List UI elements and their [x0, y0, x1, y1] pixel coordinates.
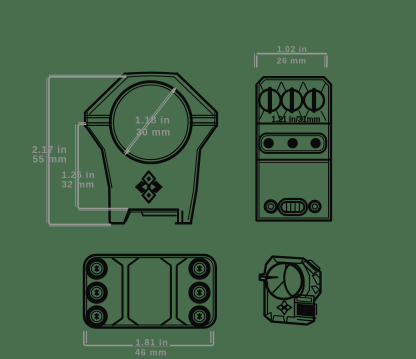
svg-text:1.18 in: 1.18 in	[135, 116, 170, 127]
3d clamp dark block	[298, 305, 315, 317]
screw 2 slot	[290, 87, 294, 113]
svg-text:26 mm: 26 mm	[277, 55, 307, 65]
svg-text:46 mm: 46 mm	[135, 347, 167, 357]
dim 1.02in bracket	[255, 53, 327, 67]
oval knurl ticks	[287, 203, 300, 212]
svg-text:1.21 in/31mm: 1.21 in/31mm	[272, 115, 321, 124]
cap top arc outer	[125, 73, 177, 74]
3d rear boss slots (hatch parallelograms)	[302, 262, 318, 275]
knurl dot 3	[310, 138, 320, 148]
3d bottom feet lines	[273, 316, 295, 323]
knurl band inner	[261, 136, 324, 151]
3d ring split line across	[260, 276, 278, 277]
torx centers	[95, 265, 202, 319]
3d bore ellipse	[282, 263, 306, 299]
star logo: bottom inner filled diamond	[146, 192, 151, 198]
cap top arc inner	[128, 76, 174, 77]
star logo: left chevron lobe	[135, 181, 147, 194]
right foot bottom	[176, 222, 191, 225]
3d mini star	[277, 300, 292, 314]
rail top inner line	[131, 211, 177, 213]
top view outer rounded rect	[84, 255, 216, 328]
body left edge	[86, 127, 110, 222]
star logo: right chevron lobe	[151, 181, 163, 194]
dim 1.18in diagonal diameter line	[125, 89, 176, 155]
saddle bar left	[123, 266, 129, 319]
3d clamp inner slot	[297, 297, 312, 302]
right clamp block verticals	[178, 210, 182, 222]
svg-text:55 mm: 55 mm	[33, 154, 68, 165]
svg-text:32 mm: 32 mm	[62, 180, 95, 191]
mid divider inner	[259, 162, 329, 164]
knurl dot 1	[263, 138, 273, 148]
ring outer circle	[110, 82, 191, 163]
dim text 1.81 in / 46 mm (masked over line)	[133, 338, 170, 347]
saddle bar right	[171, 266, 177, 319]
3d clamp rail lines	[295, 303, 317, 322]
svg-text:1.02 in: 1.02 in	[277, 44, 307, 54]
screw 1 top	[259, 90, 281, 112]
saddle bar right flares	[161, 258, 187, 325]
body right inner line	[188, 128, 213, 220]
dim 2.17in bracket: vertical line	[49, 77, 126, 225]
left wing tip face	[85, 112, 86, 127]
cap chamfer left outer	[86, 74, 125, 112]
dim 1.25in bracket: vertical line	[78, 124, 128, 208]
3d top face line	[273, 257, 304, 264]
cap chamfer right outer	[177, 74, 216, 112]
right wing tip inner line	[214, 113, 216, 127]
right flange split lines	[190, 115, 217, 125]
dim text 1.02 in / 26 mm	[277, 44, 307, 65]
bottom left foot and jaw	[110, 210, 130, 224]
knurl dot 2	[287, 138, 297, 148]
ring inner circle	[114, 85, 189, 160]
body left inner line	[89, 128, 112, 189]
bottom oval slot inner	[281, 202, 304, 212]
bottom oval slot outer	[279, 199, 308, 215]
3d rear inner edge	[304, 264, 310, 298]
rail step line	[142, 212, 177, 216]
3d front face spoke lines	[267, 264, 287, 293]
svg-text:30 mm: 30 mm	[136, 128, 171, 139]
body right edge	[191, 127, 216, 224]
top view inner border	[87, 258, 214, 325]
right wing tip face	[216, 112, 217, 127]
bottom ring right outer	[309, 201, 320, 212]
star logo: bottom diamond outline	[143, 188, 155, 203]
bottom ring right inner	[312, 204, 317, 209]
diagonal arrowheads	[124, 87, 177, 156]
3d outer body octagon	[260, 257, 321, 325]
left flange split lines	[85, 115, 112, 125]
screw 3 slot	[312, 88, 316, 113]
star logo center diamond	[147, 185, 152, 190]
star logo: top inner filled diamond	[146, 176, 151, 182]
rail top line	[130, 208, 179, 211]
side view outer plate	[257, 77, 332, 220]
cap chamfer right inner	[174, 77, 213, 114]
left wing tip inner line	[86, 113, 88, 127]
screw 3 top	[304, 90, 324, 110]
top view screws	[88, 260, 209, 326]
screw 2 top	[282, 90, 303, 111]
knurl band rounded rect	[259, 134, 326, 153]
cap chamfer left inner	[90, 77, 129, 114]
dim 1.81in bracket	[84, 331, 214, 346]
bottom ring left inner	[268, 204, 273, 209]
3d ring front face	[266, 263, 302, 299]
mid divider	[257, 159, 332, 161]
3d left body inner	[265, 282, 272, 322]
saddle bar left flares	[112, 258, 139, 325]
bottom ring left outer	[265, 201, 277, 213]
jaw inner line	[126, 212, 131, 222]
band divider under screws	[257, 123, 332, 125]
screw 1 slot	[268, 87, 272, 114]
svg-text:1.81 in: 1.81 in	[136, 337, 169, 347]
dim text 2.17 in / 55 mm	[32, 116, 171, 191]
3d clamp top parallelogram	[295, 295, 315, 305]
star logo: top diamond outline	[143, 172, 155, 187]
side view inner border	[259, 80, 329, 218]
screw recess chamfer marks	[259, 82, 326, 121]
